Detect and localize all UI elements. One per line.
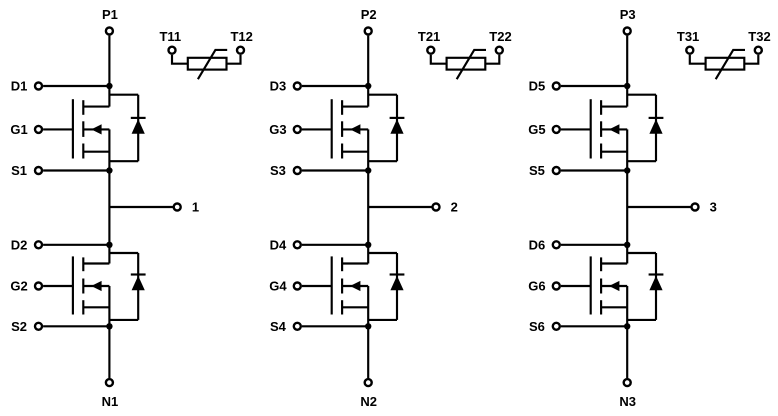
terminal G4 — [294, 283, 301, 290]
terminal N1 — [106, 379, 113, 386]
svg-text:P3: P3 — [620, 7, 636, 22]
transistor Q4 — [332, 245, 369, 326]
svg-text:S1: S1 — [11, 163, 27, 178]
wire D2 — [43, 244, 109, 246]
svg-text:S3: S3 — [270, 163, 286, 178]
terminal T12 — [237, 47, 244, 54]
terminal S2 — [35, 323, 42, 330]
svg-text:D4: D4 — [270, 238, 287, 253]
wire thermistor RT2 to T22 — [485, 55, 499, 64]
svg-text:P2: P2 — [361, 7, 377, 22]
terminal T32 — [755, 47, 762, 54]
svg-text:3: 3 — [710, 200, 717, 215]
terminal P3 — [624, 28, 631, 35]
svg-text:D3: D3 — [270, 79, 287, 94]
terminal S3 — [294, 167, 301, 174]
terminal G1 — [35, 126, 42, 133]
terminal N2 — [365, 379, 372, 386]
body diode of Q2 — [109, 253, 145, 320]
svg-text:D1: D1 — [11, 79, 28, 94]
svg-text:T11: T11 — [159, 29, 181, 44]
terminal S5 — [553, 167, 560, 174]
transistor Q6 — [591, 245, 628, 326]
svg-text:S6: S6 — [529, 319, 545, 334]
wire S5 junction to D6 junction — [626, 171, 628, 245]
terminal S4 — [294, 323, 301, 330]
wire S4 junction to N2 — [367, 326, 369, 378]
svg-text:D2: D2 — [11, 238, 28, 253]
terminal T22 — [496, 47, 503, 54]
body diode of Q6 — [627, 253, 663, 320]
wire S1 — [43, 169, 109, 171]
wire P3 to D5 junction — [626, 36, 628, 86]
terminal T21 — [427, 47, 434, 54]
svg-text:S5: S5 — [529, 163, 545, 178]
wire G2 — [43, 285, 73, 287]
wire S2 — [43, 325, 109, 327]
wire thermistor RT1 to T12 — [227, 55, 241, 64]
svg-text:G1: G1 — [10, 122, 27, 137]
terminal node 1 — [174, 204, 181, 211]
svg-text:T22: T22 — [489, 29, 511, 44]
thermistor RT2 — [447, 50, 486, 79]
transistor Q1 — [73, 86, 110, 171]
wire S2 junction to N1 — [108, 326, 110, 378]
wire G4 — [302, 285, 332, 287]
wire D5 — [561, 85, 627, 87]
wire thermistor RT3 to T32 — [744, 55, 758, 64]
terminal D5 — [553, 83, 560, 90]
svg-text:N2: N2 — [360, 394, 377, 409]
terminal S6 — [553, 323, 560, 330]
svg-text:D5: D5 — [529, 79, 546, 94]
wire T11 to thermistor RT1 — [172, 55, 188, 64]
node S6 junction — [624, 323, 630, 329]
wire S6 — [561, 325, 627, 327]
svg-text:2: 2 — [451, 200, 458, 215]
transistor Q2 — [73, 245, 110, 326]
wire S4 — [302, 325, 368, 327]
terminal node 3 — [692, 204, 699, 211]
node D4 junction — [365, 242, 371, 248]
terminal D4 — [294, 241, 301, 248]
svg-text:N3: N3 — [619, 394, 636, 409]
node D3 junction — [365, 83, 371, 89]
svg-text:S2: S2 — [11, 319, 27, 334]
thermistor RT3 — [706, 50, 745, 79]
wire D3 — [302, 85, 368, 87]
svg-text:G5: G5 — [528, 122, 545, 137]
terminal D3 — [294, 83, 301, 90]
wire G3 — [302, 128, 332, 130]
svg-text:T31: T31 — [677, 29, 699, 44]
wire G6 — [561, 285, 591, 287]
wire D1 — [43, 85, 109, 87]
svg-text:G6: G6 — [528, 279, 545, 294]
terminal P1 — [106, 28, 113, 35]
node S1 junction — [106, 167, 112, 173]
svg-text:G3: G3 — [269, 122, 286, 137]
wire S3 junction to D4 junction — [367, 171, 369, 245]
terminal G5 — [553, 126, 560, 133]
body diode of Q1 — [109, 95, 145, 162]
wire T21 to thermistor RT2 — [431, 55, 447, 64]
wire S3 — [302, 169, 368, 171]
svg-text:G4: G4 — [269, 279, 287, 294]
terminal P2 — [365, 28, 372, 35]
svg-text:1: 1 — [192, 200, 199, 215]
terminal D6 — [553, 241, 560, 248]
node D2 junction — [106, 242, 112, 248]
terminal G6 — [553, 283, 560, 290]
node D5 junction — [624, 83, 630, 89]
terminal T11 — [169, 47, 176, 54]
wire P1 to D1 junction — [108, 36, 110, 86]
wire P2 to D3 junction — [367, 36, 369, 86]
thermistor RT1 — [188, 50, 227, 79]
wire D4 — [302, 244, 368, 246]
wire S6 junction to N3 — [626, 326, 628, 378]
wire output node 3 — [627, 206, 691, 208]
svg-text:N1: N1 — [102, 394, 119, 409]
wire G1 — [43, 128, 73, 130]
wire G5 — [561, 128, 591, 130]
body diode of Q5 — [627, 95, 663, 162]
wire output node 1 — [109, 206, 173, 208]
wire S1 junction to D2 junction — [108, 171, 110, 245]
node S4 junction — [365, 323, 371, 329]
terminal G3 — [294, 126, 301, 133]
wire output node 2 — [368, 206, 432, 208]
node S3 junction — [365, 167, 371, 173]
svg-text:G2: G2 — [10, 279, 27, 294]
node D6 junction — [624, 242, 630, 248]
terminal D2 — [35, 241, 42, 248]
body diode of Q4 — [368, 253, 404, 320]
terminal T31 — [686, 47, 693, 54]
node D1 junction — [106, 83, 112, 89]
terminal S1 — [35, 167, 42, 174]
wire D6 — [561, 244, 627, 246]
svg-text:P1: P1 — [102, 7, 118, 22]
node S2 junction — [106, 323, 112, 329]
svg-text:D6: D6 — [529, 238, 546, 253]
svg-text:T12: T12 — [230, 29, 252, 44]
terminal node 2 — [433, 204, 440, 211]
body diode of Q3 — [368, 95, 404, 162]
terminal N3 — [624, 379, 631, 386]
transistor Q3 — [332, 86, 369, 171]
svg-text:T21: T21 — [418, 29, 440, 44]
svg-text:S4: S4 — [270, 319, 287, 334]
node S5 junction — [624, 167, 630, 173]
wire S5 — [561, 169, 627, 171]
terminal G2 — [35, 283, 42, 290]
wire T31 to thermistor RT3 — [690, 55, 706, 64]
transistor Q5 — [591, 86, 628, 171]
svg-text:T32: T32 — [748, 29, 770, 44]
terminal D1 — [35, 83, 42, 90]
